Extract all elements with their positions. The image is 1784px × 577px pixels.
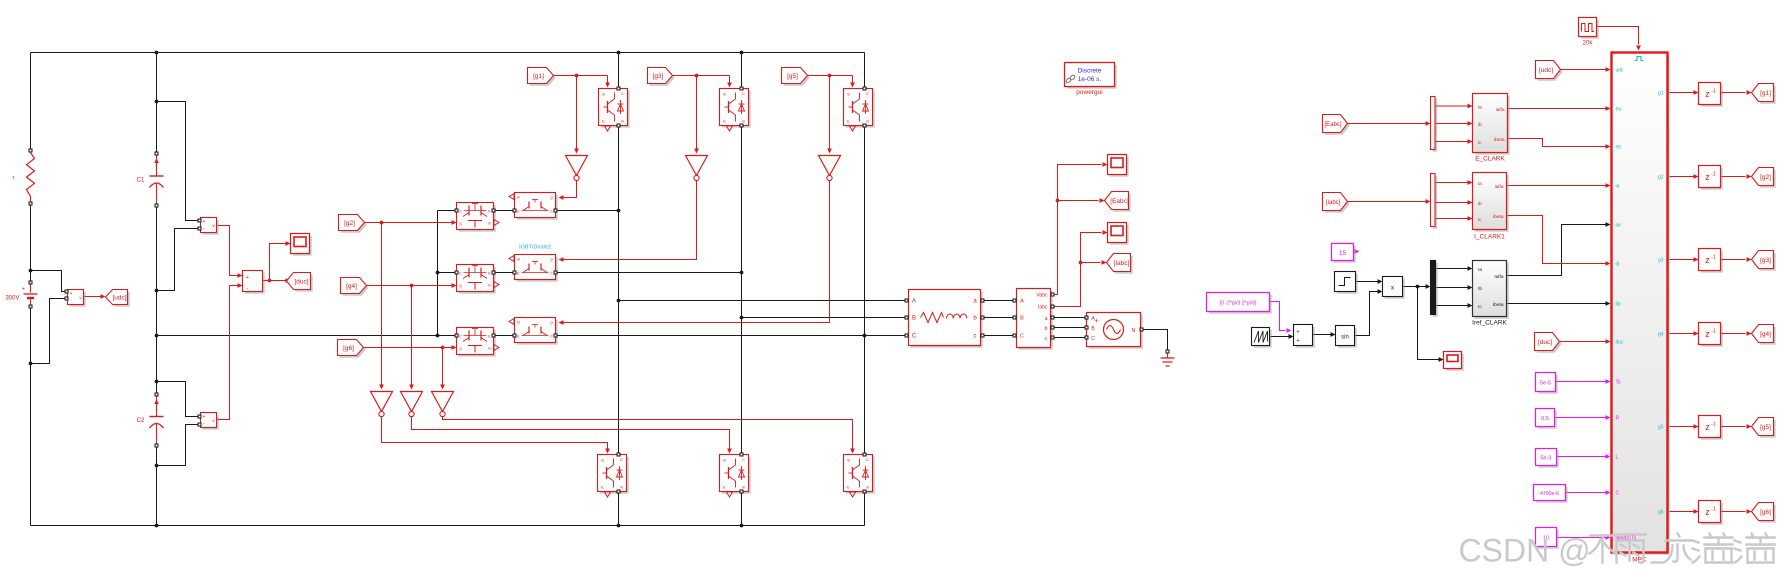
svg-text:g: g bbox=[459, 283, 461, 288]
svg-text:E: E bbox=[517, 209, 520, 214]
svg-text:-1: -1 bbox=[1711, 255, 1716, 261]
svg-text:C: C bbox=[1091, 336, 1095, 342]
svg-text:[Iabc]: [Iabc] bbox=[1326, 200, 1341, 206]
svg-text:-1: -1 bbox=[1711, 422, 1716, 428]
svg-text:C: C bbox=[459, 334, 462, 339]
svg-text:+: + bbox=[246, 275, 249, 281]
svg-text:+: + bbox=[1296, 338, 1299, 344]
svg-text:E_CLARK: E_CLARK bbox=[1475, 156, 1505, 163]
svg-text:+: + bbox=[203, 414, 206, 420]
svg-text:A: A bbox=[1020, 299, 1024, 305]
svg-text:[g5]: [g5] bbox=[787, 73, 798, 80]
svg-text:B: B bbox=[912, 316, 916, 322]
svg-text:E: E bbox=[847, 485, 850, 490]
svg-text:20k: 20k bbox=[1583, 41, 1594, 47]
svg-text:E: E bbox=[488, 334, 491, 339]
svg-text:ia: ia bbox=[1616, 184, 1620, 190]
svg-text:15: 15 bbox=[1339, 250, 1347, 257]
svg-text:1e-06 s.: 1e-06 s. bbox=[1078, 76, 1102, 83]
svg-text:C: C bbox=[459, 209, 462, 214]
svg-text:powergui: powergui bbox=[1076, 89, 1102, 96]
svg-text:C: C bbox=[620, 457, 623, 462]
svg-text:ic: ic bbox=[1478, 140, 1482, 146]
svg-text:C: C bbox=[550, 271, 553, 276]
svg-text:E: E bbox=[847, 119, 850, 124]
svg-text:g: g bbox=[550, 257, 552, 262]
svg-text:I_CLARK1: I_CLARK1 bbox=[1474, 234, 1505, 241]
svg-text:5e-3: 5e-3 bbox=[1540, 456, 1551, 462]
svg-text:[g3]: [g3] bbox=[1760, 257, 1771, 264]
svg-text:ia: ia bbox=[1478, 105, 1482, 111]
svg-text:R: R bbox=[1616, 416, 1620, 422]
svg-text:eb: eb bbox=[1616, 145, 1622, 151]
svg-text:Discrete: Discrete bbox=[1078, 68, 1102, 75]
svg-text:C: C bbox=[459, 271, 462, 276]
svg-text:[duc]: [duc] bbox=[294, 278, 308, 285]
svg-text:z: z bbox=[1705, 329, 1710, 339]
svg-text:C2: C2 bbox=[137, 418, 145, 424]
svg-text:+: + bbox=[203, 219, 206, 225]
svg-text:[0 -2*pi/3 2*pi/3]: [0 -2*pi/3 2*pi/3] bbox=[1220, 301, 1257, 307]
svg-text:C: C bbox=[1020, 334, 1024, 340]
svg-text:g: g bbox=[602, 91, 604, 96]
svg-text:Ialfa: Ialfa bbox=[1494, 274, 1503, 280]
svg-text:+: + bbox=[70, 291, 73, 297]
svg-text:-1: -1 bbox=[1711, 329, 1716, 335]
svg-text:sin: sin bbox=[1341, 335, 1349, 341]
svg-text:g1: g1 bbox=[1658, 91, 1664, 97]
svg-text:CSDN @: CSDN @ bbox=[1459, 533, 1591, 569]
svg-text:[udc]: [udc] bbox=[112, 294, 126, 301]
svg-text:[g2]: [g2] bbox=[344, 220, 355, 227]
svg-text:g: g bbox=[550, 320, 552, 325]
svg-text:+: + bbox=[1094, 318, 1098, 325]
svg-text:ib: ib bbox=[1478, 122, 1482, 128]
svg-text:A: A bbox=[912, 299, 916, 305]
svg-text:C: C bbox=[1616, 491, 1620, 497]
svg-text:z: z bbox=[1705, 172, 1710, 182]
svg-text:g: g bbox=[847, 457, 849, 462]
svg-text:c: c bbox=[974, 334, 977, 340]
svg-text:Ibeta: Ibeta bbox=[1493, 302, 1504, 308]
svg-text:E: E bbox=[723, 119, 726, 124]
svg-text:ic: ic bbox=[1478, 217, 1482, 223]
svg-text:[g6]: [g6] bbox=[343, 345, 354, 352]
svg-text:B: B bbox=[1020, 316, 1024, 322]
svg-text:E: E bbox=[602, 119, 605, 124]
svg-text:-1: -1 bbox=[1711, 507, 1716, 513]
svg-text:C: C bbox=[550, 209, 553, 214]
svg-text:ibeta: ibeta bbox=[1493, 214, 1504, 220]
svg-text:E: E bbox=[517, 271, 520, 276]
svg-text:z: z bbox=[1705, 422, 1710, 432]
svg-text:duc: duc bbox=[1616, 340, 1625, 346]
svg-text:E: E bbox=[601, 485, 604, 490]
svg-text:[udc]: [udc] bbox=[1539, 67, 1553, 74]
svg-text:C1: C1 bbox=[137, 178, 145, 184]
svg-text:ialfa: ialfa bbox=[1496, 107, 1505, 113]
svg-text:C: C bbox=[742, 457, 745, 462]
svg-text:[g4]: [g4] bbox=[1760, 331, 1771, 338]
svg-text:C: C bbox=[912, 334, 917, 340]
svg-text:-1: -1 bbox=[1711, 172, 1716, 178]
svg-text:N: N bbox=[1132, 328, 1136, 334]
svg-text:ialfa: ialfa bbox=[1495, 184, 1504, 190]
svg-text:g: g bbox=[847, 91, 849, 96]
svg-text:4700e-6: 4700e-6 bbox=[1540, 491, 1559, 497]
svg-text:[Iabc]: [Iabc] bbox=[1114, 260, 1130, 267]
svg-text:g: g bbox=[459, 346, 461, 351]
svg-text:g: g bbox=[550, 195, 552, 200]
svg-text:g5: g5 bbox=[1658, 425, 1664, 431]
svg-text:[g6]: [g6] bbox=[1760, 509, 1771, 516]
svg-text:300V: 300V bbox=[6, 296, 20, 302]
svg-text:ib: ib bbox=[1616, 262, 1620, 268]
svg-text:Vabc: Vabc bbox=[1036, 293, 1048, 299]
svg-text:ea: ea bbox=[1616, 107, 1622, 113]
svg-text:g: g bbox=[459, 221, 461, 226]
svg-text:E: E bbox=[488, 271, 491, 276]
svg-text:z: z bbox=[1705, 89, 1710, 99]
svg-text:z: z bbox=[1705, 255, 1710, 265]
svg-text:Ia: Ia bbox=[1478, 267, 1482, 273]
svg-text:g2: g2 bbox=[1658, 175, 1664, 181]
svg-text:+: + bbox=[22, 287, 25, 293]
svg-text:Iabc: Iabc bbox=[1038, 305, 1048, 311]
svg-text:udc: udc bbox=[1616, 68, 1625, 74]
svg-text:IGBT/Diode2: IGBT/Diode2 bbox=[519, 245, 551, 251]
svg-text:g4: g4 bbox=[1658, 332, 1664, 338]
svg-text:+: + bbox=[1296, 330, 1299, 336]
svg-text:C: C bbox=[866, 457, 869, 462]
svg-text:[g3]: [g3] bbox=[653, 73, 664, 80]
svg-text:[g5]: [g5] bbox=[1760, 424, 1771, 431]
svg-text:L: L bbox=[1616, 455, 1619, 461]
svg-text:[g4]: [g4] bbox=[346, 283, 357, 290]
svg-text:[g1]: [g1] bbox=[1760, 90, 1771, 97]
svg-text:Ib: Ib bbox=[1478, 286, 1482, 292]
svg-text:a: a bbox=[1045, 316, 1048, 322]
svg-text:[Eabc]: [Eabc] bbox=[1110, 198, 1129, 205]
svg-text:g6: g6 bbox=[1658, 510, 1664, 516]
svg-text:g3: g3 bbox=[1658, 258, 1664, 264]
svg-text:g: g bbox=[601, 457, 603, 462]
svg-text:z: z bbox=[1705, 507, 1710, 517]
svg-text:g: g bbox=[723, 91, 725, 96]
svg-text:[g2]: [g2] bbox=[1760, 174, 1771, 181]
svg-text:C: C bbox=[621, 91, 624, 96]
svg-text:E: E bbox=[723, 485, 726, 490]
svg-text:ibr: ibr bbox=[1616, 302, 1622, 308]
svg-text:5e-5: 5e-5 bbox=[1540, 381, 1551, 387]
svg-text:C: C bbox=[550, 334, 553, 339]
svg-text:[Eabc]: [Eabc] bbox=[1324, 122, 1341, 128]
svg-text:ib: ib bbox=[1478, 201, 1482, 207]
svg-text:[g1]: [g1] bbox=[533, 73, 544, 80]
svg-text:-: - bbox=[247, 286, 249, 292]
svg-text:Ts: Ts bbox=[1616, 380, 1622, 386]
svg-text:C: C bbox=[742, 91, 745, 96]
svg-text:[duc]: [duc] bbox=[1538, 339, 1552, 346]
svg-text:C: C bbox=[866, 91, 869, 96]
svg-text:E: E bbox=[488, 209, 491, 214]
svg-text:0.5: 0.5 bbox=[1541, 416, 1549, 422]
svg-text:b: b bbox=[1045, 326, 1048, 332]
svg-text:Iref_CLARK: Iref_CLARK bbox=[1472, 320, 1507, 327]
svg-text:ibeta: ibeta bbox=[1494, 137, 1505, 143]
svg-text:E: E bbox=[517, 334, 520, 339]
svg-text:Ic: Ic bbox=[1478, 304, 1482, 310]
svg-text:g: g bbox=[723, 457, 725, 462]
svg-text:iar: iar bbox=[1616, 223, 1622, 229]
svg-text:ia: ia bbox=[1478, 181, 1482, 187]
svg-text:-1: -1 bbox=[1711, 89, 1716, 95]
